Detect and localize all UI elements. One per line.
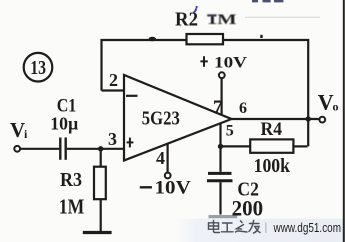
svg-text:100k: 100k (254, 155, 291, 177)
svg-text:R3: R3 (60, 169, 82, 191)
svg-text:2: 2 (109, 70, 118, 90)
svg-text:V: V (318, 90, 334, 115)
svg-text:o: o (333, 99, 339, 113)
svg-text:3: 3 (108, 129, 117, 149)
svg-text:1M: 1M (59, 194, 85, 218)
svg-text:R4: R4 (261, 119, 283, 140)
svg-text:5: 5 (226, 123, 234, 140)
svg-text:www.dg51.com: www.dg51.com (273, 221, 341, 235)
svg-text:10V: 10V (214, 55, 248, 72)
svg-text:V: V (10, 118, 25, 142)
svg-text:10V: 10V (155, 179, 192, 199)
svg-text:5G23: 5G23 (142, 107, 180, 129)
svg-text:7: 7 (213, 97, 223, 118)
svg-text:13: 13 (30, 57, 46, 79)
svg-text:200: 200 (232, 196, 264, 221)
svg-text:6: 6 (239, 100, 247, 117)
svg-text:10µ: 10µ (50, 114, 79, 134)
svg-text:4: 4 (156, 148, 165, 168)
